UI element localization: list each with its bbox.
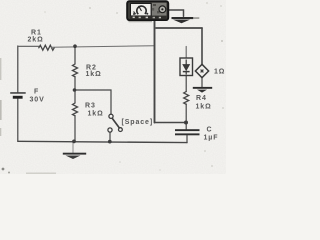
- svg-text:1kΩ: 1kΩ: [86, 71, 102, 78]
- svg-text:1kΩ: 1kΩ: [196, 104, 212, 111]
- svg-text:R4: R4: [196, 95, 207, 102]
- svg-text:C: C: [207, 127, 213, 134]
- svg-text:R3: R3: [85, 103, 96, 110]
- svg-text:30V: 30V: [30, 97, 45, 104]
- svg-text:1Ω: 1Ω: [214, 69, 225, 76]
- svg-text:[Space]: [Space]: [122, 119, 154, 126]
- svg-text:1µF: 1µF: [204, 135, 219, 142]
- svg-text:F: F: [34, 89, 39, 96]
- svg-text:2kΩ: 2kΩ: [28, 37, 44, 44]
- svg-text:1kΩ: 1kΩ: [88, 111, 104, 118]
- svg-text:R1: R1: [31, 30, 42, 37]
